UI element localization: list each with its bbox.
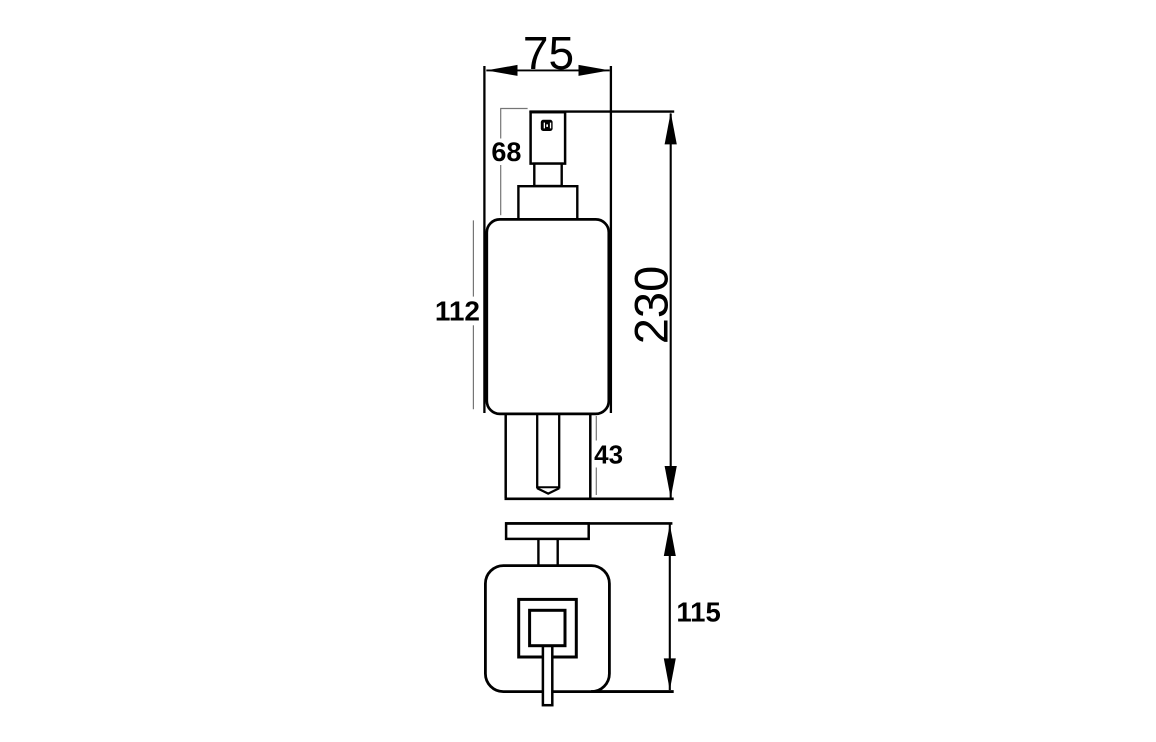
svg-text:68: 68 <box>491 137 521 167</box>
dimension 75: right arrowhead <box>579 65 610 76</box>
wall plate (plan view) <box>506 523 589 539</box>
pump head logo icon <box>541 120 553 131</box>
suction tube right edge <box>558 415 560 489</box>
dimension 115: top arrowhead <box>664 524 676 556</box>
dimension 43: leader line <box>595 416 597 495</box>
bottle body (plan view rounded square) <box>485 566 609 692</box>
dimension 43: label halo <box>592 441 626 468</box>
suction tube left edge <box>536 415 538 489</box>
dimension 115: bottom arrowhead <box>664 658 676 690</box>
dimension 112: label halo <box>432 297 484 326</box>
pump head top line extending to 230 dimension <box>529 110 674 112</box>
svg-text:75: 75 <box>523 27 574 79</box>
dimension 230: bottom arrowhead <box>665 466 677 498</box>
pump head (side view) <box>531 112 566 163</box>
suction tube pointed tip <box>537 488 559 493</box>
dimension 75: dimension line <box>486 69 609 71</box>
bracket stem right edge (plan view) <box>557 540 559 566</box>
svg-text:112: 112 <box>435 296 480 327</box>
dimension 75: left arrowhead <box>486 65 517 76</box>
lower pump section right edge <box>589 414 592 498</box>
pump inner square (plan view) <box>530 610 565 645</box>
dimension 115: dimension line <box>669 525 671 691</box>
dimension 230: dimension line <box>670 114 672 498</box>
pump outer square (plan view) <box>519 599 577 657</box>
pump collar (side view) <box>518 186 577 220</box>
dimension 75: left extension line <box>483 66 485 413</box>
bottom line of side view extending to 230 dimension <box>505 497 674 500</box>
svg-text:230: 230 <box>624 266 677 344</box>
dimension 75: right extension line <box>610 66 612 413</box>
lower pump section left edge <box>504 414 507 498</box>
bottle body (side view rounded rectangle) <box>487 219 609 414</box>
svg-text:43: 43 <box>594 440 623 470</box>
nozzle stem (plan view, crosses body wall) <box>543 646 552 705</box>
dimension 68: extension tick at pump top <box>500 108 527 110</box>
plan view bottom line extending to 115 dimension <box>591 690 674 693</box>
dimension 230: top arrowhead <box>665 112 677 144</box>
svg-text:115: 115 <box>676 597 720 628</box>
suction tube end cap line <box>537 486 559 488</box>
plan view top line extending to 115 dimension <box>505 522 672 525</box>
dimension 68: label halo <box>488 139 525 166</box>
bracket stem left edge (plan view) <box>537 540 539 566</box>
dimension 112: leader line <box>472 220 474 409</box>
pump stem (side view) <box>534 164 561 186</box>
dimension 68: leader line <box>500 109 502 216</box>
